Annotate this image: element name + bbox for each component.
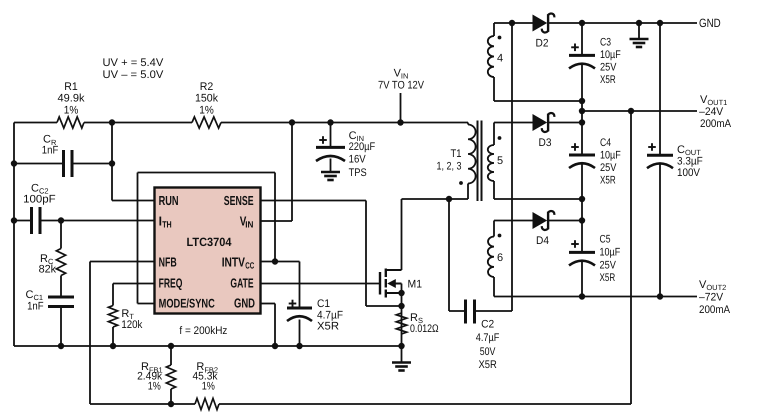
resistor RS <box>396 313 406 334</box>
svg-text:M1: M1 <box>408 278 423 290</box>
svg-text:4: 4 <box>497 52 503 64</box>
svg-text:FREQ: FREQ <box>159 276 183 291</box>
winding 6 phase dot <box>498 234 502 238</box>
resistor RFB2 <box>195 398 219 409</box>
wire VOUT1 rail <box>581 101 583 111</box>
svg-text:C3: C3 <box>600 36 611 48</box>
node CC1 bottom <box>58 343 64 349</box>
svg-text:GATE: GATE <box>230 276 253 291</box>
wire VIN pin <box>261 220 293 222</box>
transformer T1 primary <box>467 123 469 125</box>
wire winding5 bottom <box>494 198 582 200</box>
svg-text:X5R: X5R <box>317 320 339 332</box>
svg-text:TPS: TPS <box>349 167 367 179</box>
node CR right <box>109 160 115 166</box>
svg-text:SENSE: SENSE <box>224 193 254 208</box>
node ground stem <box>636 20 642 26</box>
svg-text:220µF: 220µF <box>349 141 376 153</box>
wire winding4 top <box>494 22 533 24</box>
svg-text:3.3µF: 3.3µF <box>677 155 703 167</box>
capacitor COUT <box>659 23 661 155</box>
svg-text:X5R: X5R <box>600 272 616 284</box>
capacitor C3 <box>581 23 583 55</box>
diode D2 <box>533 15 546 30</box>
node winding4 bottom <box>579 98 585 104</box>
wire D4 cathode <box>549 220 582 222</box>
svg-text:82k: 82k <box>39 264 57 276</box>
wire INTVCC <box>261 261 300 263</box>
resistor R2 <box>192 117 221 128</box>
node SENSE junction <box>398 303 404 309</box>
node RFB1 bottom <box>168 401 174 407</box>
svg-text:X5R: X5R <box>600 175 616 187</box>
resistor RFB1 <box>170 346 172 365</box>
transformer core <box>477 121 479 202</box>
svg-text:1%: 1% <box>202 381 215 393</box>
node feedback tap <box>628 108 634 114</box>
ground output <box>638 23 640 39</box>
wire left vertical <box>13 123 15 347</box>
svg-text:10µF: 10µF <box>600 49 621 61</box>
svg-text:7V TO 12V: 7V TO 12V <box>378 79 425 91</box>
svg-text:1, 2, 3: 1, 2, 3 <box>437 160 462 172</box>
svg-text:C5: C5 <box>600 233 611 245</box>
capacitor CC1 <box>60 276 62 298</box>
svg-text:LTC3704: LTC3704 <box>187 235 232 249</box>
node VIN supply <box>397 119 403 125</box>
svg-text:1%: 1% <box>64 104 79 116</box>
svg-text:0.012Ω: 0.012Ω <box>410 323 439 335</box>
wire FREQ <box>113 283 155 285</box>
capacitor C5 <box>581 199 583 252</box>
svg-text:1nF: 1nF <box>27 301 44 313</box>
svg-text:X5R: X5R <box>600 74 616 86</box>
svg-text:1%: 1% <box>199 104 214 116</box>
svg-text:UV – = 5.0V: UV – = 5.0V <box>103 69 164 81</box>
svg-text:D3: D3 <box>539 137 552 149</box>
node VOUT1 column <box>579 108 585 114</box>
diode D4 <box>533 213 546 228</box>
node CIN branch <box>327 119 333 125</box>
svg-text:5: 5 <box>497 155 503 167</box>
wire feedback VOUT1 to RFB2 <box>630 111 632 404</box>
resistor RT <box>112 284 114 306</box>
winding 4 phase dot <box>498 36 502 40</box>
node RT bottom <box>110 343 116 349</box>
wire winding6 top <box>494 220 533 222</box>
wire SENSE <box>261 200 367 202</box>
wire D3 cathode <box>549 122 582 124</box>
svg-text:CC: CC <box>245 261 254 271</box>
node D3 cathode <box>579 119 585 125</box>
node C5 bottom <box>579 293 585 299</box>
node R1-R2 junction <box>109 119 115 125</box>
svg-text:INTV: INTV <box>222 255 246 270</box>
svg-text:–24V: –24V <box>699 106 724 118</box>
node RS bottom <box>398 343 404 349</box>
diode D3 <box>533 115 546 130</box>
svg-text:25V: 25V <box>600 162 617 174</box>
wire C2 to top rail <box>511 23 513 311</box>
node INTVCC <box>272 258 278 264</box>
node M1 source <box>398 290 404 296</box>
wire primary bottom <box>402 198 469 200</box>
node GND pin bottom <box>272 343 278 349</box>
node COUT bottom <box>657 293 663 299</box>
transformer winding 6 <box>493 221 495 237</box>
svg-text:RUN: RUN <box>159 193 179 208</box>
svg-text:–72V: –72V <box>699 291 724 303</box>
wire VOUT2 rail <box>494 296 697 298</box>
node CC2 left <box>11 217 17 223</box>
wire D2 cathode <box>549 22 639 24</box>
svg-text:10µF: 10µF <box>600 247 621 259</box>
svg-text:100V: 100V <box>677 167 701 179</box>
ground CIN <box>321 171 340 174</box>
wire GND pin <box>261 303 276 305</box>
svg-text:120k: 120k <box>121 319 142 331</box>
wire NFB rail <box>90 403 195 405</box>
wire ground bus <box>14 345 402 347</box>
node CR left <box>11 160 17 166</box>
svg-text:200mA: 200mA <box>699 304 731 316</box>
wire MODE/SYNC loop <box>137 173 139 304</box>
wire NFB <box>90 261 155 263</box>
svg-text:IN: IN <box>245 220 253 230</box>
svg-text:C1: C1 <box>317 298 330 310</box>
svg-text:150k: 150k <box>195 92 218 104</box>
svg-text:NFB: NFB <box>159 255 177 270</box>
capacitor CR <box>14 163 64 165</box>
svg-text:49.9k: 49.9k <box>58 92 85 104</box>
svg-text:D2: D2 <box>536 37 549 49</box>
svg-text:1nF: 1nF <box>42 145 59 157</box>
winding 5 phase dot <box>498 136 502 140</box>
op-amp U1 LTC3704 controller <box>155 188 261 314</box>
svg-text:10µF: 10µF <box>600 150 621 162</box>
transformer winding 5 <box>493 123 495 146</box>
wire top rail VIN <box>14 122 57 124</box>
svg-text:200mA: 200mA <box>700 118 732 130</box>
svg-text:X5R: X5R <box>478 359 496 371</box>
svg-text:4.7µF: 4.7µF <box>476 332 500 344</box>
node winding5 bottom <box>579 196 585 202</box>
wire GATE <box>261 283 381 285</box>
node RFB1 top <box>168 343 174 349</box>
node C1 bottom <box>296 343 302 349</box>
svg-text:T1: T1 <box>451 148 462 160</box>
capacitor C1 <box>299 262 301 309</box>
node VIN branch <box>289 119 295 125</box>
ground RS <box>401 346 403 362</box>
svg-text:D4: D4 <box>536 235 549 247</box>
node C3 top <box>579 20 585 26</box>
svg-text:16V: 16V <box>349 154 367 166</box>
wire winding5 top <box>494 122 533 124</box>
svg-text:GND: GND <box>234 295 255 310</box>
node D4 cathode <box>579 217 585 223</box>
svg-text:C2: C2 <box>481 318 494 330</box>
svg-text:25V: 25V <box>600 260 617 272</box>
node ITH-RC junction <box>58 217 64 223</box>
svg-text:R2: R2 <box>200 81 214 93</box>
node COUT top <box>657 20 663 26</box>
svg-text:GND: GND <box>699 16 721 30</box>
resistor R1 <box>57 117 84 128</box>
svg-text:50V: 50V <box>480 346 496 358</box>
svg-text:100pF: 100pF <box>23 193 56 205</box>
svg-text:f = 200kHz: f = 200kHz <box>179 325 227 337</box>
transformer winding 4 <box>493 23 495 36</box>
svg-text:UV + = 5.4V: UV + = 5.4V <box>103 57 164 69</box>
wire RUN vertical <box>111 123 113 201</box>
wire VIN stub <box>400 93 402 123</box>
transistor M1 MOSFET <box>379 272 381 295</box>
svg-text:MODE/SYNC: MODE/SYNC <box>159 296 215 310</box>
svg-text:25V: 25V <box>600 62 617 74</box>
svg-text:1%: 1% <box>148 381 161 393</box>
svg-text:R1: R1 <box>64 81 78 93</box>
capacitor CC2 <box>14 220 32 222</box>
resistor RC <box>60 221 62 249</box>
primary phase dot <box>459 181 463 185</box>
svg-text:C4: C4 <box>600 137 611 149</box>
svg-text:TH: TH <box>162 220 172 230</box>
capacitor CIN <box>330 123 332 148</box>
node C2 top <box>509 20 515 26</box>
capacitor C4 <box>581 111 583 155</box>
wire winding4 bottom <box>494 100 582 102</box>
node C2 branch <box>446 196 452 202</box>
svg-text:6: 6 <box>497 252 503 264</box>
capacitor C2 <box>448 199 450 311</box>
